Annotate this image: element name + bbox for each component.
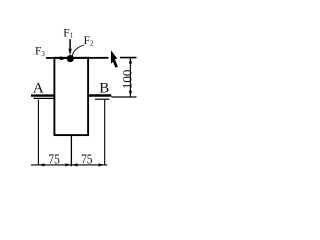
arrowhead left 75 inward at centre <box>65 163 71 166</box>
dimension extension line at B level to right <box>111 96 136 98</box>
arrowhead right 75 at centre <box>72 163 78 166</box>
right vertical dimension line 100 <box>129 58 131 97</box>
svg-text:F1: F1 <box>63 27 73 39</box>
arrowhead left 75 outward <box>39 163 45 166</box>
support A lower thin line <box>33 97 54 99</box>
svg-text:75: 75 <box>48 152 59 167</box>
support B upper thick bar <box>88 94 111 96</box>
top dimension extension line, right of cursor <box>120 57 137 59</box>
svg-text:F2: F2 <box>84 35 94 47</box>
svg-text:75: 75 <box>81 153 92 168</box>
dimension extension line below A <box>37 100 39 166</box>
dimension extension line below frame centre <box>70 136 72 166</box>
arrowhead 100 bottom <box>129 91 132 97</box>
support B lower thin line <box>95 98 109 100</box>
mouse cursor <box>111 50 118 67</box>
svg-text:A: A <box>33 81 44 97</box>
node at load point <box>67 55 74 62</box>
dimension extension line below B <box>104 100 106 166</box>
svg-text:F3: F3 <box>35 46 45 58</box>
top member of frame with dimension extension, left of cursor <box>46 57 108 59</box>
leader line from F2 to node <box>72 45 84 56</box>
bottom dimension line <box>31 164 107 166</box>
frame rectangular column body <box>54 58 88 135</box>
svg-text:100: 100 <box>119 70 134 90</box>
arrowhead right 75 outward <box>99 163 105 166</box>
force F3 arrow along top member <box>60 56 67 60</box>
force F1 vertical arrow onto node <box>69 39 71 51</box>
support A upper thick bar <box>31 94 54 96</box>
arrowhead 100 top <box>129 58 132 64</box>
svg-text:B: B <box>99 81 109 97</box>
